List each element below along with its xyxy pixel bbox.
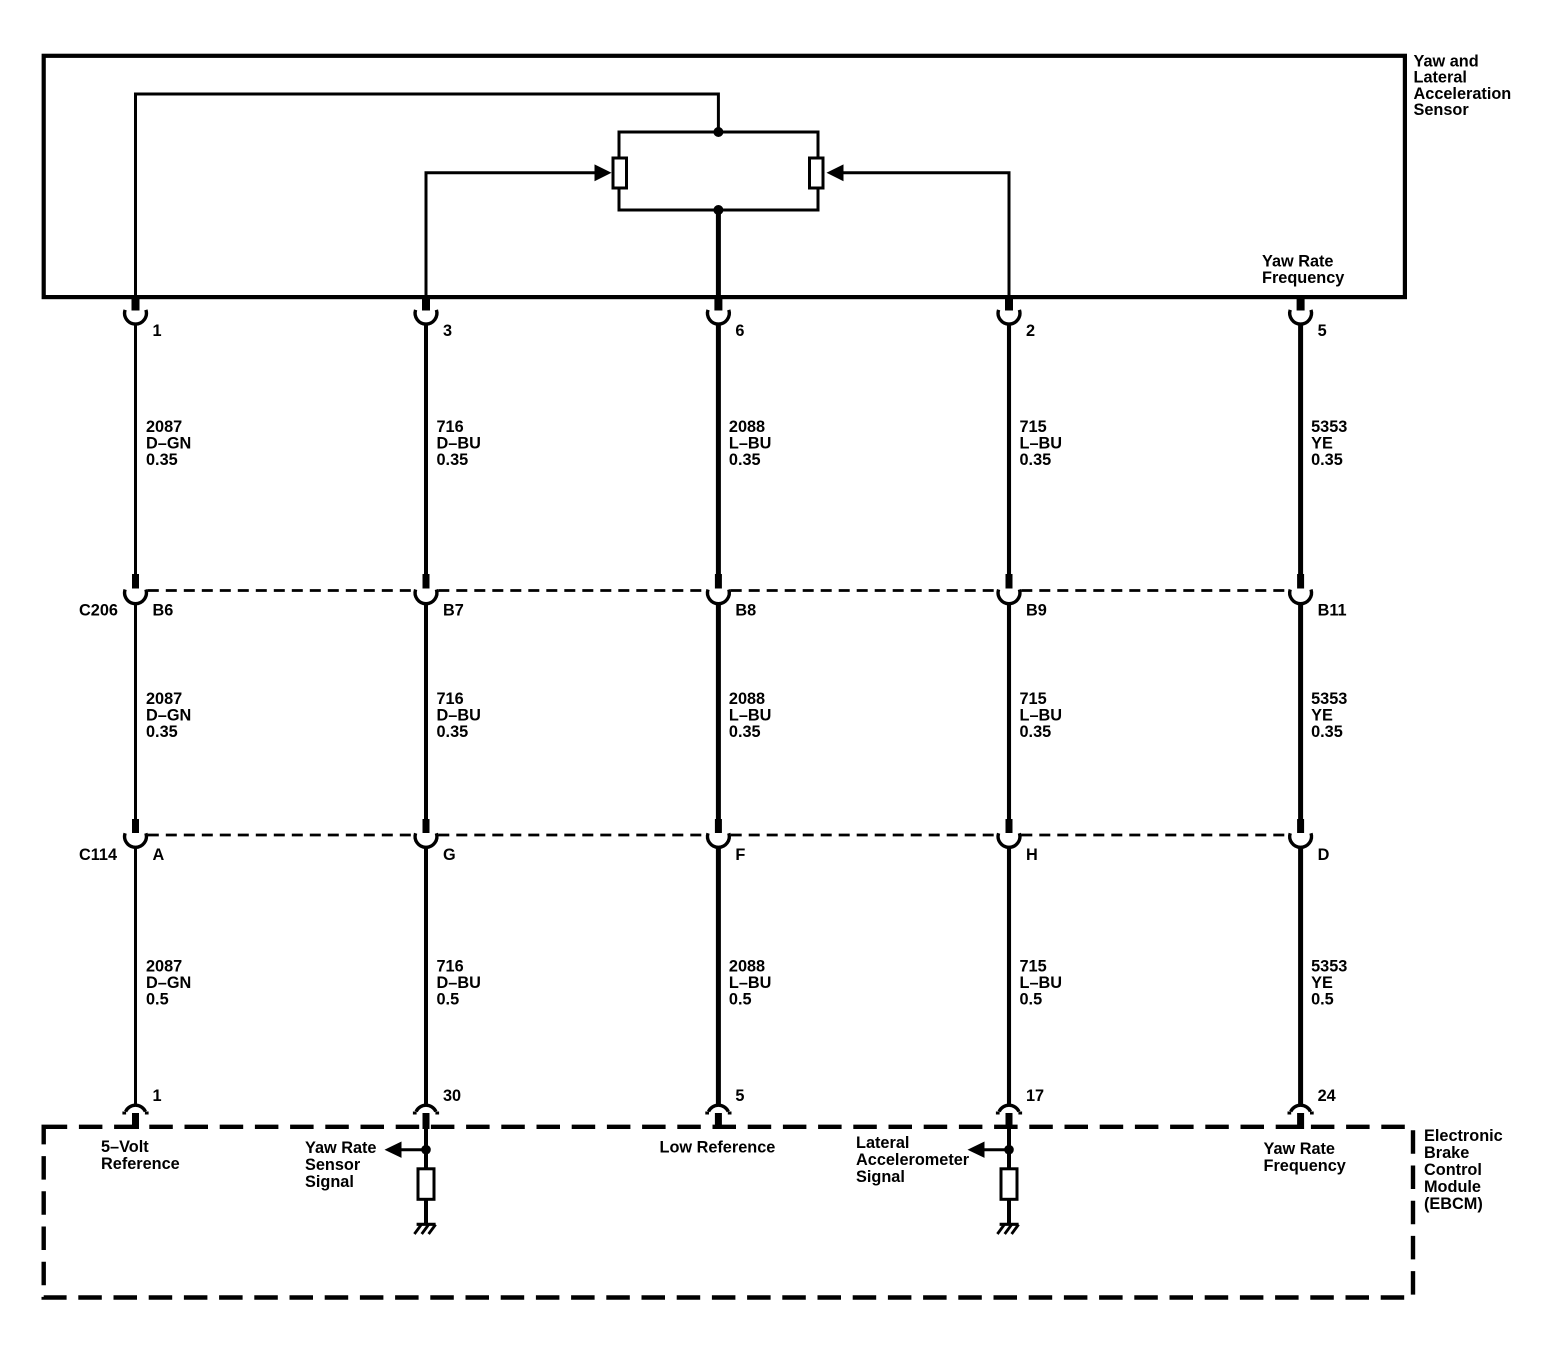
- svg-text:716: 716: [437, 958, 464, 976]
- wire label circuit 715 (middle): [1020, 690, 1063, 741]
- svg-text:0.35: 0.35: [729, 451, 761, 469]
- svg-text:L–BU: L–BU: [1020, 435, 1063, 453]
- wire label circuit 2088 (lower): [729, 958, 772, 1009]
- svg-text:B11: B11: [1318, 601, 1347, 619]
- wire label circuit 716 (middle): [437, 690, 481, 741]
- label: Low Reference: [660, 1139, 776, 1157]
- sensor box: Yaw and Lateral Acceleration Sensor: [44, 56, 1405, 297]
- svg-text:B9: B9: [1026, 601, 1047, 619]
- svg-text:L–BU: L–BU: [729, 435, 772, 453]
- svg-text:715: 715: [1020, 958, 1047, 976]
- svg-text:24: 24: [1318, 1087, 1336, 1105]
- label: Lateral Accelerometer Signal: [856, 1134, 970, 1186]
- label: Electronic Brake Control Module (EBCM): [1424, 1127, 1503, 1213]
- svg-text:H: H: [1026, 846, 1038, 864]
- svg-text:G: G: [443, 846, 456, 864]
- svg-text:5353: 5353: [1311, 418, 1347, 436]
- svg-text:Signal: Signal: [856, 1168, 905, 1186]
- wire segment low reference C114 to EBCM: [716, 847, 721, 1104]
- ground (chassis) for lateral accelerometer signal: [997, 1224, 1018, 1234]
- svg-text:C114: C114: [79, 846, 117, 864]
- svg-text:D: D: [1318, 846, 1330, 864]
- svg-text:(EBCM): (EBCM): [1424, 1195, 1483, 1213]
- svg-text:0.35: 0.35: [1020, 451, 1052, 469]
- connector C206 terminal B8: [708, 574, 730, 604]
- svg-text:715: 715: [1020, 690, 1047, 708]
- connector C114 terminal A: [125, 819, 147, 847]
- wire label circuit 2088 (middle): [729, 690, 772, 741]
- connector C114 terminal F: [708, 819, 730, 847]
- label terminal B6: [153, 601, 174, 619]
- wire segment lateral accelerometer signal sensor to C206: [1007, 324, 1011, 575]
- wire: resistor to ground (yaw rate sensor signal): [424, 1199, 428, 1223]
- svg-text:D–BU: D–BU: [437, 707, 481, 725]
- svg-text:L–BU: L–BU: [729, 974, 772, 992]
- label pin 17 (EBCM): [1026, 1087, 1044, 1105]
- sensing element body (rectangle): [619, 132, 818, 210]
- svg-text:5353: 5353: [1311, 958, 1347, 976]
- wire segment 5-volt reference C206 to C114: [134, 604, 137, 820]
- label terminal B8: [735, 601, 756, 619]
- svg-text:0.35: 0.35: [146, 451, 178, 469]
- connector C206 dashed line: [148, 589, 1289, 592]
- wire: pin3 internal with arrow into left element: [426, 164, 612, 299]
- svg-text:30: 30: [443, 1087, 461, 1105]
- wire label circuit 2087 (lower): [146, 958, 191, 1009]
- connector C114 terminal D: [1290, 819, 1312, 847]
- connector pin 3 at sensor box (yaw rate sensor signal): [415, 297, 437, 324]
- label terminal A: [153, 846, 165, 864]
- svg-text:Lateral: Lateral: [856, 1134, 909, 1152]
- wire label circuit 715 (upper): [1020, 418, 1063, 469]
- label: Yaw Rate Frequency (inside sensor box): [1262, 253, 1344, 288]
- wire label circuit 5353 (upper): [1311, 418, 1347, 469]
- svg-text:Low Reference: Low Reference: [660, 1139, 776, 1157]
- label pin 5 (sensor): [1318, 322, 1327, 340]
- svg-text:2: 2: [1026, 322, 1035, 340]
- label: 5-Volt Reference: [101, 1138, 180, 1173]
- connector C206 terminal B9: [998, 574, 1020, 604]
- wire: pin1 5V ref internal (up, right, down to element top): [136, 94, 719, 299]
- svg-text:17: 17: [1026, 1087, 1044, 1105]
- wire label circuit 715 (lower): [1020, 958, 1063, 1009]
- label terminal D: [1318, 846, 1330, 864]
- wire: EBCM lateral accelerometer signal stub: [1007, 1128, 1011, 1170]
- wire segment 5-volt reference C114 to EBCM: [134, 847, 137, 1104]
- wire segment yaw rate sensor signal C206 to C114: [424, 604, 428, 820]
- label pin 3 (sensor): [443, 322, 452, 340]
- svg-text:Frequency: Frequency: [1264, 1157, 1346, 1175]
- svg-text:5: 5: [735, 1087, 744, 1105]
- label terminal B9: [1026, 601, 1047, 619]
- wire segment low reference sensor to C206: [716, 324, 721, 575]
- connector pin 5 at sensor box (yaw rate frequency): [1290, 297, 1312, 324]
- svg-text:Brake: Brake: [1424, 1144, 1469, 1162]
- svg-text:5353: 5353: [1311, 690, 1347, 708]
- resistor: EBCM pull on yaw rate sensor signal: [418, 1169, 434, 1200]
- wire label circuit 716 (upper): [437, 418, 481, 469]
- label: C206: [79, 601, 118, 619]
- svg-text:Sensor: Sensor: [1414, 101, 1470, 119]
- node: element top junction: [713, 127, 723, 137]
- wire segment yaw rate sensor signal C114 to EBCM: [424, 847, 428, 1104]
- wire segment yaw rate frequency sensor to C206: [1298, 324, 1303, 575]
- node: junction on yaw rate sensor signal: [421, 1145, 431, 1155]
- svg-text:L–BU: L–BU: [1020, 707, 1063, 725]
- wire label circuit 5353 (middle): [1311, 690, 1347, 741]
- resistor: EBCM pull on lateral accelerometer signal: [1001, 1169, 1017, 1200]
- wire label circuit 2087 (upper): [146, 418, 191, 469]
- svg-text:0.35: 0.35: [1020, 723, 1052, 741]
- wire label circuit 5353 (lower): [1311, 958, 1347, 1009]
- svg-text:2087: 2087: [146, 690, 182, 708]
- svg-text:0.35: 0.35: [437, 723, 469, 741]
- svg-text:D–GN: D–GN: [146, 974, 191, 992]
- wire segment 5-volt reference sensor to C206: [134, 324, 137, 575]
- connector pin 1 at sensor box (5-volt reference): [125, 297, 147, 324]
- wire: element bottom to pin6: [716, 210, 721, 299]
- label: Yaw and Lateral Acceleration Sensor: [1414, 53, 1512, 120]
- svg-text:F: F: [735, 846, 745, 864]
- label terminal H: [1026, 846, 1038, 864]
- svg-text:D–BU: D–BU: [437, 435, 481, 453]
- svg-text:5–Volt: 5–Volt: [101, 1138, 149, 1156]
- svg-text:A: A: [153, 846, 165, 864]
- svg-text:0.35: 0.35: [146, 723, 178, 741]
- label terminal F: [735, 846, 745, 864]
- svg-text:2088: 2088: [729, 418, 765, 436]
- label pin 6 (sensor): [735, 322, 744, 340]
- svg-text:B7: B7: [443, 601, 464, 619]
- label terminal B7: [443, 601, 464, 619]
- svg-text:L–BU: L–BU: [729, 707, 772, 725]
- connector pin 2 at sensor box (lateral accelerometer signal): [998, 297, 1020, 324]
- svg-text:0.5: 0.5: [1020, 991, 1043, 1009]
- wire segment low reference C206 to C114: [716, 604, 721, 820]
- connector C114 terminal H: [998, 819, 1020, 847]
- wire label circuit 2087 (middle): [146, 690, 191, 741]
- connector C114 dashed line: [148, 834, 1289, 837]
- label pin 2 (sensor): [1026, 322, 1035, 340]
- svg-text:2087: 2087: [146, 958, 182, 976]
- svg-text:Yaw Rate: Yaw Rate: [1262, 253, 1334, 271]
- svg-text:0.5: 0.5: [146, 991, 169, 1009]
- wire: yaw rate sensor signal arrow (points left): [385, 1142, 427, 1158]
- connector pin 6 at sensor box (low reference): [708, 297, 730, 324]
- svg-text:YE: YE: [1311, 435, 1333, 453]
- svg-text:2088: 2088: [729, 958, 765, 976]
- wire label circuit 716 (lower): [437, 958, 481, 1009]
- label: Yaw Rate Frequency (EBCM): [1264, 1140, 1346, 1175]
- svg-text:6: 6: [735, 322, 744, 340]
- label pin 1 (sensor): [153, 322, 162, 340]
- wire segment yaw rate frequency C114 to EBCM: [1298, 847, 1303, 1104]
- svg-text:Module: Module: [1424, 1178, 1481, 1196]
- wire: lateral accelerometer signal arrow (points left): [968, 1142, 1010, 1158]
- svg-text:0.35: 0.35: [437, 451, 469, 469]
- wire: pin2 internal with arrow into right element: [827, 164, 1010, 299]
- svg-text:Control: Control: [1424, 1161, 1482, 1179]
- svg-text:YE: YE: [1311, 707, 1333, 725]
- svg-text:Reference: Reference: [101, 1155, 180, 1173]
- resistor: right sensing element: [810, 158, 824, 188]
- EBCM module box (dashed): [44, 1127, 1413, 1298]
- svg-text:Signal: Signal: [305, 1173, 354, 1191]
- connector pin 24 at EBCM: [1288, 1105, 1314, 1129]
- svg-text:Electronic: Electronic: [1424, 1127, 1503, 1145]
- node: element bottom junction: [713, 205, 723, 215]
- svg-text:715: 715: [1020, 418, 1047, 436]
- connector C114 terminal G: [415, 819, 437, 847]
- label pin 30 (EBCM): [443, 1087, 461, 1105]
- svg-text:0.35: 0.35: [1311, 723, 1343, 741]
- svg-text:2087: 2087: [146, 418, 182, 436]
- wire segment lateral accelerometer signal C206 to C114: [1007, 604, 1011, 820]
- svg-text:1: 1: [153, 322, 162, 340]
- wire: EBCM yaw rate sensor signal stub: [424, 1128, 428, 1170]
- svg-text:Yaw Rate: Yaw Rate: [305, 1139, 377, 1157]
- svg-text:0.5: 0.5: [1311, 991, 1334, 1009]
- svg-text:0.5: 0.5: [729, 991, 752, 1009]
- connector C206 terminal B11: [1290, 574, 1312, 604]
- label pin 24 (EBCM): [1318, 1087, 1336, 1105]
- label terminal B11: [1318, 601, 1347, 619]
- svg-text:Frequency: Frequency: [1262, 269, 1344, 287]
- node: junction on lateral accelerometer signal: [1004, 1145, 1014, 1155]
- label pin 5 (EBCM): [735, 1087, 744, 1105]
- connector pin 30 at EBCM: [413, 1105, 439, 1129]
- wire label circuit 2088 (upper): [729, 418, 772, 469]
- svg-text:YE: YE: [1311, 974, 1333, 992]
- connector C206 terminal B6: [125, 574, 147, 604]
- svg-text:3: 3: [443, 322, 452, 340]
- wire segment lateral accelerometer signal C114 to EBCM: [1007, 847, 1011, 1104]
- label terminal G: [443, 846, 456, 864]
- wire segment yaw rate sensor signal sensor to C206: [424, 324, 428, 575]
- connector C206 terminal B7: [415, 574, 437, 604]
- svg-text:0.5: 0.5: [437, 991, 460, 1009]
- connector pin 17 at EBCM: [996, 1105, 1022, 1129]
- svg-text:D–GN: D–GN: [146, 435, 191, 453]
- svg-text:D–BU: D–BU: [437, 974, 481, 992]
- svg-text:0.35: 0.35: [729, 723, 761, 741]
- svg-text:B6: B6: [153, 601, 174, 619]
- svg-text:D–GN: D–GN: [146, 707, 191, 725]
- svg-text:0.35: 0.35: [1311, 451, 1343, 469]
- svg-text:Accelerometer: Accelerometer: [856, 1151, 970, 1169]
- svg-text:1: 1: [153, 1087, 162, 1105]
- svg-text:716: 716: [437, 690, 464, 708]
- svg-text:C206: C206: [79, 601, 118, 619]
- svg-text:B8: B8: [735, 601, 756, 619]
- wire: resistor to ground (lateral accelerometer signal): [1007, 1199, 1011, 1223]
- svg-text:Sensor: Sensor: [305, 1156, 361, 1174]
- connector pin 1 at EBCM: [122, 1105, 148, 1129]
- resistor: left sensing element: [613, 158, 627, 188]
- svg-text:5: 5: [1318, 322, 1327, 340]
- label pin 1 (EBCM): [153, 1087, 162, 1105]
- svg-text:Yaw Rate: Yaw Rate: [1264, 1140, 1336, 1158]
- connector pin 5 at EBCM: [705, 1105, 731, 1129]
- svg-text:716: 716: [437, 418, 464, 436]
- svg-text:2088: 2088: [729, 690, 765, 708]
- label: C114: [79, 846, 117, 864]
- wire segment yaw rate frequency C206 to C114: [1298, 604, 1303, 820]
- svg-text:L–BU: L–BU: [1020, 974, 1063, 992]
- ground (chassis) for yaw rate sensor signal: [414, 1224, 435, 1234]
- label: Yaw Rate Sensor Signal: [305, 1139, 377, 1191]
